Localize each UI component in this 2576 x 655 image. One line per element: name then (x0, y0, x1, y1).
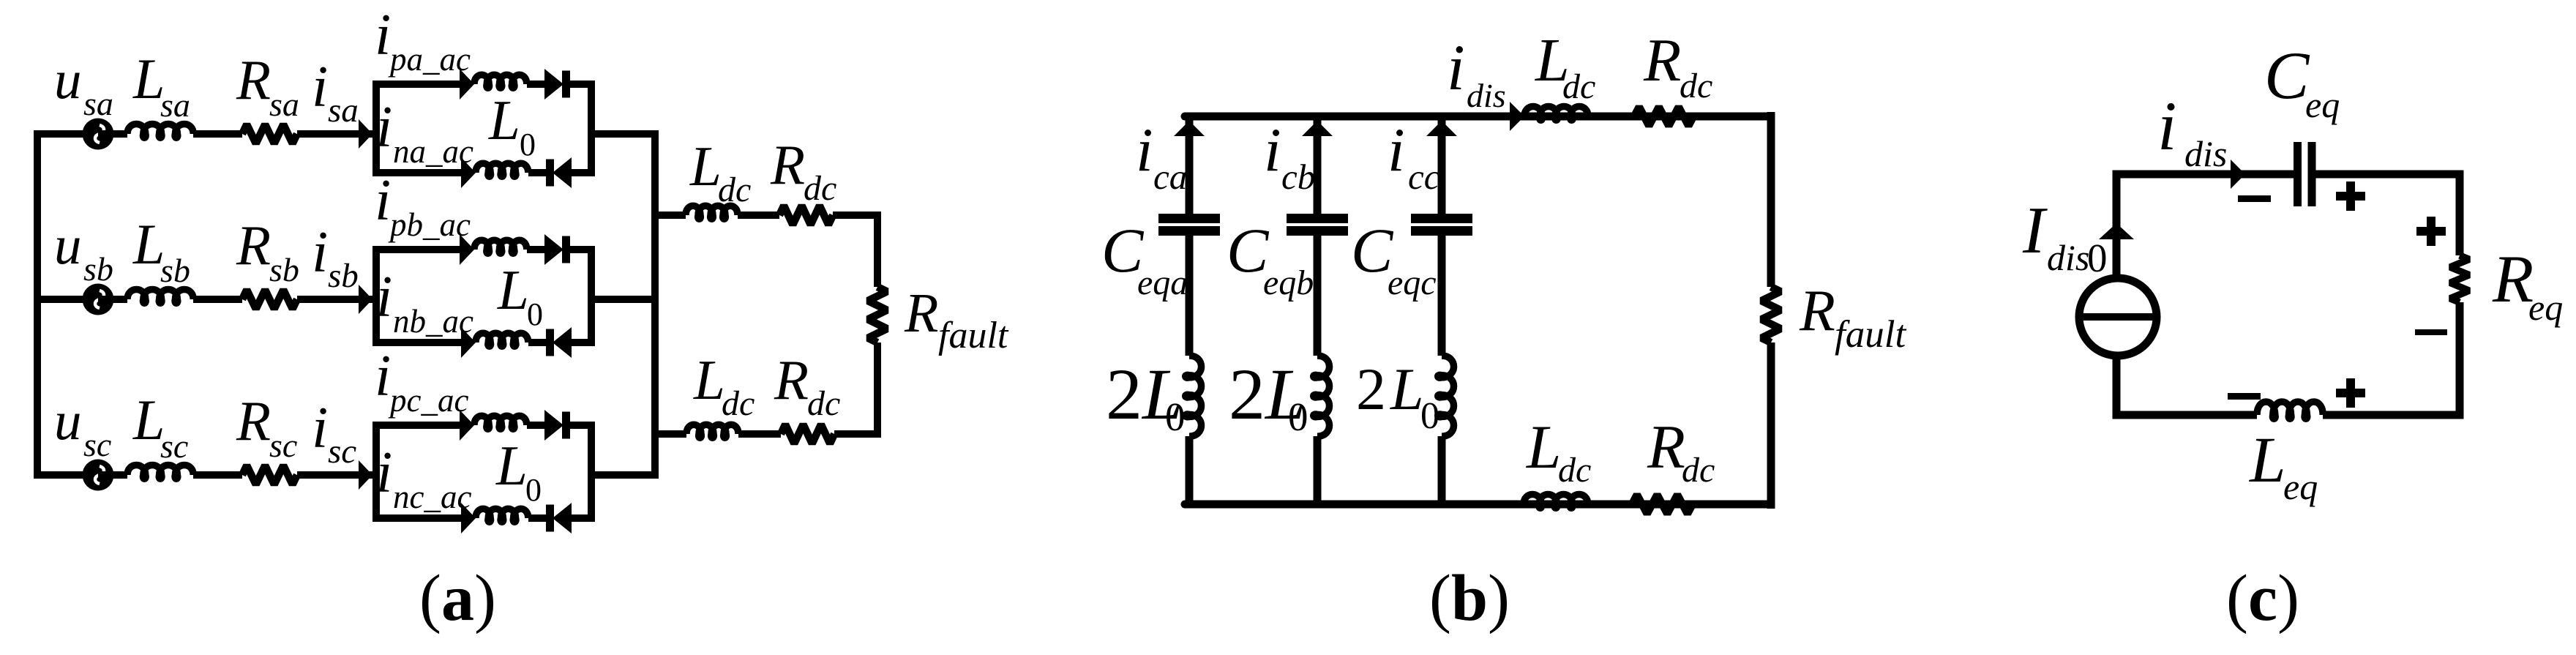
wire right bus of (a) (651, 130, 659, 479)
label L_sb (132, 212, 190, 289)
label L_dc bottom (b) (1526, 413, 1591, 490)
diode top branch a (544, 69, 570, 100)
wire loop a top-left segment (372, 81, 460, 88)
inductor L0 bottom branch c (476, 509, 528, 522)
inductor L_eq (2257, 402, 2323, 419)
label i_cc (1388, 116, 1440, 197)
svg-text:sb: sb (328, 257, 359, 295)
wire branch a middle (b) (1186, 236, 1194, 356)
arrow i_na_ac (461, 157, 476, 188)
svg-text:dc: dc (1680, 67, 1712, 105)
svg-text:L: L (495, 434, 528, 497)
svg-text:eq: eq (2283, 466, 2318, 507)
inductor L_dc bottom (a) (686, 424, 738, 438)
resistor R_dc bottom (b) (1632, 495, 1693, 514)
minus left of C_eq (2238, 195, 2271, 202)
inductor L0 bottom branch b (476, 333, 528, 346)
label i_cb (1264, 116, 1315, 197)
svg-text:L: L (689, 135, 722, 198)
inductor L_sb (127, 290, 193, 304)
wire top-left segment (c) (2116, 174, 2294, 239)
svg-text:sc: sc (269, 427, 297, 464)
label R_fault (b) (1799, 279, 1906, 356)
inductor 2L0 a (1186, 356, 1202, 436)
plus above R_eq (2416, 217, 2446, 246)
wire left bus of (a) (34, 130, 41, 479)
svg-text:eqa: eqa (1137, 263, 1188, 302)
svg-text:i: i (1388, 116, 1405, 184)
label L_sa (132, 47, 190, 124)
label C_eqc (1351, 215, 1437, 302)
wire loop b right edge (588, 246, 595, 346)
svg-text:2: 2 (1106, 353, 1142, 435)
inductor L0 bottom branch a (476, 163, 528, 176)
resistor R_fault (b) (1761, 287, 1781, 343)
wire diode to loop right edge bottom b (570, 339, 595, 346)
label (b) (1429, 562, 1510, 635)
wire bus to L_dc top (a) (651, 212, 686, 219)
wire diode to loop a right edge (569, 81, 595, 88)
svg-text:0: 0 (2087, 236, 2108, 280)
arrow i_dis (b) (1510, 102, 1524, 131)
svg-text:sb: sb (83, 250, 113, 288)
label L_0 loop b (497, 258, 543, 332)
label R_eq (2492, 242, 2563, 328)
inductor L0 top branch b (474, 240, 527, 253)
wire R_sc to node (297, 471, 376, 479)
svg-text:(c): (c) (2226, 562, 2299, 635)
wire top bus (b) (1185, 113, 1771, 121)
wire R_sa to node (297, 130, 376, 138)
wire diode to loop right edge bottom c (570, 514, 595, 522)
arrow i_nc_ac (461, 503, 476, 534)
diode top branch c (544, 410, 570, 441)
svg-text:i: i (312, 55, 328, 119)
voltage source u_sb (83, 284, 114, 315)
svg-text:dis: dis (2184, 133, 2227, 174)
svg-text:dc: dc (718, 171, 751, 209)
svg-text:(b): (b) (1429, 562, 1510, 635)
resistor R_sc (242, 465, 297, 484)
inductor L0 top branch a (474, 75, 527, 88)
capacitor C_eqa (1158, 214, 1220, 236)
inductor 2L0 b (1314, 356, 1330, 436)
label C_eqa (1101, 215, 1188, 302)
svg-text:R: R (1647, 413, 1685, 482)
wire L_dc to R_dc top (a) (738, 212, 779, 219)
svg-text:cb: cb (1281, 157, 1315, 197)
svg-text:L: L (1526, 413, 1561, 482)
wire coil to diode bottom b (528, 339, 547, 346)
wire R_dc to L_dc bottom (a) (738, 430, 781, 438)
svg-text:i: i (376, 265, 392, 329)
inductor L_sc (127, 465, 193, 479)
svg-text:fault: fault (1835, 313, 1906, 356)
svg-text:R: R (236, 214, 271, 277)
wire coil to diode bottom a (528, 169, 547, 176)
wire L_dc to R_dc top (b) (1588, 113, 1634, 120)
label L_dc top (a) (689, 135, 751, 209)
diode bottom branch c (546, 503, 572, 534)
diode bottom branch a (546, 157, 572, 188)
svg-text:I: I (2022, 193, 2048, 267)
arrow i_sb (359, 285, 372, 314)
label R_sb (236, 214, 299, 288)
arrow I_dis0 (2099, 223, 2134, 239)
label R_dc top (b) (1643, 26, 1712, 105)
svg-text:u: u (54, 50, 82, 111)
svg-text:i: i (375, 168, 391, 233)
svg-text:L: L (1390, 356, 1424, 422)
svg-text:i: i (1264, 116, 1281, 184)
svg-text:R: R (774, 348, 809, 411)
svg-text:u: u (54, 215, 82, 276)
svg-text:i: i (1136, 116, 1153, 184)
label i_pb_ac (375, 168, 471, 243)
inductor L_dc bottom (b) (1524, 495, 1588, 509)
svg-text:i: i (376, 441, 392, 505)
svg-text:pa_ac: pa_ac (388, 41, 471, 78)
wire branch c lower (b) (1438, 436, 1446, 504)
label i_sc (312, 396, 356, 471)
svg-text:(a): (a) (419, 562, 496, 635)
label i_na_ac (376, 95, 473, 170)
inductor L_dc top (a) (686, 206, 738, 219)
svg-text:L: L (488, 89, 520, 151)
wire loop c top-left segment (372, 422, 460, 429)
wire coil to diode top b (527, 246, 544, 253)
label R_dc bottom (b) (1647, 413, 1715, 490)
wire L_sb to R_sb (193, 296, 242, 303)
wire loop c right edge (588, 422, 595, 522)
wire R_eq to bottom-right corner (c) (2323, 302, 2460, 415)
capacitor C_eq (2294, 142, 2316, 206)
plus right of C_eq (2336, 181, 2365, 211)
wire right vertical upper (b) (1767, 112, 1775, 287)
minus below R_eq (2415, 329, 2447, 335)
wire loop c bottom-left segment (372, 514, 461, 522)
svg-text:i: i (2157, 87, 2176, 165)
label i_nb_ac (376, 265, 473, 340)
svg-text:i: i (375, 344, 391, 408)
label R_sa (236, 48, 299, 123)
arrow i_pb_ac (460, 234, 474, 265)
svg-text:dc: dc (1682, 451, 1715, 490)
wire phase b from bus to source (34, 296, 98, 303)
label L_dc top (b) (1535, 26, 1595, 106)
svg-text:dis: dis (1467, 77, 1506, 114)
wire source to bottom-left corner (c) (2116, 353, 2257, 415)
label i_nc_ac (376, 441, 471, 515)
svg-text:i: i (312, 220, 328, 285)
label (c) (2226, 562, 2299, 635)
wire source to L_sc (98, 471, 127, 479)
label i_sa (312, 55, 359, 130)
wire loop c left edge (372, 422, 380, 522)
diode bottom branch b (546, 327, 572, 358)
wire branch b upper (b) (1314, 116, 1322, 216)
svg-text:0: 0 (527, 296, 543, 332)
label R_sc (236, 389, 297, 464)
wire branch c upper (b) (1438, 116, 1446, 216)
wire coil to diode top c (527, 422, 544, 429)
inductor 2L0 c (1438, 356, 1454, 436)
svg-text:2: 2 (1356, 356, 1386, 422)
wire diode to loop c right edge (569, 422, 595, 429)
resistor R_sa (242, 124, 297, 143)
svg-text:L: L (693, 348, 725, 411)
wire loop b bottom-left segment (372, 339, 461, 346)
wire phase a from bus to source (34, 130, 98, 138)
label 2L_0 a (1106, 353, 1186, 439)
wire branch b middle (b) (1314, 236, 1322, 356)
svg-text:i: i (376, 95, 392, 160)
svg-text:sb: sb (160, 252, 190, 289)
resistor R_dc bottom (a) (781, 424, 834, 443)
wire diode to loop right edge bottom a (570, 169, 595, 176)
svg-text:dc: dc (804, 169, 836, 208)
label L_eq (2248, 424, 2318, 507)
arrow i_pc_ac (460, 410, 474, 441)
inductor L0 top branch c (474, 416, 527, 429)
svg-text:dc: dc (807, 384, 840, 423)
wire diode to loop b right edge (569, 246, 595, 253)
svg-text:sa: sa (83, 85, 113, 122)
wire R_dc top to right corner (b) (1693, 113, 1771, 120)
svg-text:R: R (1799, 279, 1835, 343)
svg-text:sc: sc (160, 427, 188, 465)
svg-text:R: R (236, 389, 271, 452)
current source I_dis0 (2079, 278, 2157, 356)
wire L_dc bottom to bus (a) (651, 430, 686, 438)
wire right vertical lower (b) (1767, 343, 1775, 509)
wire loop a right edge (588, 81, 595, 176)
svg-text:sa: sa (328, 91, 359, 130)
label L_0 loop a (488, 89, 536, 162)
svg-text:dc: dc (1562, 67, 1595, 106)
arrow i_ca (1174, 121, 1205, 136)
wire branch a lower (b) (1186, 436, 1194, 504)
capacitor C_eqb (1287, 214, 1348, 236)
svg-text:i: i (375, 3, 391, 67)
label 2L_0 c (1356, 356, 1439, 437)
wire arrow to source (c) (2113, 231, 2121, 279)
label L_sc (132, 388, 188, 465)
wire branch c middle (b) (1438, 236, 1446, 356)
diode top branch b (544, 234, 570, 265)
wire branch b lower (b) (1314, 436, 1322, 504)
svg-text:0: 0 (1420, 395, 1439, 437)
arrow i_sa (359, 119, 372, 149)
svg-text:i: i (1447, 32, 1465, 104)
label R_dc top (a) (770, 133, 836, 208)
wire loop b top-left segment (372, 246, 460, 253)
wire L_sa to R_sa (193, 130, 242, 138)
svg-text:2: 2 (1229, 353, 1265, 435)
inductor L_dc top (b) (1524, 107, 1588, 121)
voltage source u_sa (83, 119, 114, 150)
wire loop a bottom-left segment (372, 169, 461, 176)
wire source to L_sa (98, 130, 127, 138)
svg-text:eq: eq (2305, 84, 2340, 125)
svg-text:eqb: eqb (1263, 263, 1314, 302)
arrow i_pa_ac (460, 69, 474, 100)
svg-text:ca: ca (1153, 157, 1187, 197)
svg-text:0: 0 (1165, 394, 1186, 439)
svg-text:sc: sc (83, 426, 111, 463)
svg-text:R: R (236, 48, 271, 111)
svg-text:0: 0 (520, 127, 536, 162)
svg-text:sa: sa (269, 86, 299, 123)
capacitor C_eqc (1411, 214, 1472, 236)
svg-text:eqc: eqc (1388, 263, 1437, 302)
svg-text:C: C (2264, 38, 2310, 113)
arrow i_cc (1426, 121, 1457, 136)
label i_sb (312, 220, 359, 295)
resistor R_sb (242, 290, 297, 309)
wire R_dc to L_dc bottom (b) (1588, 501, 1632, 508)
wire loop a left edge (372, 81, 380, 176)
svg-text:fault: fault (938, 315, 1009, 356)
svg-text:L: L (497, 258, 529, 321)
svg-text:nb_ac: nb_ac (393, 303, 473, 340)
svg-text:dc: dc (722, 384, 755, 423)
arrow i_cb (1302, 121, 1333, 136)
wire loop a to right bus (591, 130, 655, 138)
svg-text:eq: eq (2528, 287, 2563, 328)
wire source to L_sb (98, 296, 127, 303)
svg-text:R: R (904, 282, 938, 344)
wire loop c to right bus (591, 471, 655, 479)
svg-text:dis: dis (2047, 237, 2089, 278)
arrow i_sc (359, 460, 372, 490)
voltage source u_sc (83, 460, 114, 491)
svg-text:sc: sc (328, 433, 356, 471)
resistor R_fault (a) (868, 287, 887, 343)
label C_eqb (1227, 215, 1314, 302)
wire phase c from bus to source (34, 471, 98, 479)
svg-text:pb_ac: pb_ac (388, 206, 471, 243)
label L_0 loop c (495, 434, 542, 508)
resistor R_eq (2450, 255, 2469, 302)
wire loop b left edge (372, 246, 380, 346)
arrow i_dis (c) (2231, 160, 2245, 189)
label R_dc bottom (a) (774, 348, 840, 423)
wire cap to top-right corner (c) (2315, 174, 2460, 255)
wire coil to diode bottom c (528, 514, 547, 522)
svg-text:nc_ac: nc_ac (393, 479, 471, 515)
label u_sa (54, 50, 113, 122)
label 2L_0 b (1229, 353, 1308, 439)
svg-text:pc_ac: pc_ac (388, 382, 468, 419)
wire R_sb to node (297, 296, 376, 303)
svg-text:sa: sa (160, 86, 190, 124)
label i_dis (c) (2157, 87, 2227, 174)
wire R_dc to corner top (a) (833, 215, 877, 287)
svg-text:R: R (770, 133, 805, 196)
label i_pc_ac (375, 344, 468, 419)
svg-text:i: i (312, 396, 328, 460)
wire branch a upper (b) (1186, 116, 1194, 216)
label i_ca (1136, 116, 1187, 197)
svg-text:R: R (2492, 242, 2534, 316)
label L_dc bottom (a) (693, 348, 755, 423)
label u_sc (54, 391, 111, 463)
wire R_fault to corner bottom (a) (834, 343, 877, 434)
svg-text:sb: sb (269, 251, 299, 288)
svg-text:0: 0 (1288, 394, 1308, 439)
svg-text:cc: cc (1408, 157, 1440, 197)
label R_fault (a) (904, 282, 1009, 356)
wire loop b to right bus (591, 296, 655, 303)
label i_pa_ac (375, 3, 471, 78)
arrow i_nb_ac (461, 327, 476, 358)
svg-text:dc: dc (1558, 451, 1591, 490)
label u_sb (54, 215, 113, 288)
wire L_sc to R_sc (193, 471, 242, 479)
label C_eq (2264, 38, 2340, 125)
wire coil to diode top a (527, 81, 544, 88)
resistor R_dc top (b) (1634, 107, 1693, 126)
resistor R_dc top (a) (779, 206, 833, 225)
wire bottom bus (b) (1185, 501, 1771, 509)
svg-text:0: 0 (525, 472, 542, 508)
label I_dis0 (2022, 193, 2108, 280)
svg-text:na_ac: na_ac (393, 133, 473, 170)
svg-text:L: L (2248, 424, 2286, 496)
inductor L_sa (127, 124, 193, 138)
plus right of L_eq (2336, 378, 2365, 408)
svg-text:R: R (1643, 26, 1681, 94)
svg-text:u: u (54, 391, 82, 452)
label i_dis (b) (1447, 32, 1506, 114)
minus left of L_eq (2228, 393, 2261, 400)
label (a) (419, 562, 496, 635)
